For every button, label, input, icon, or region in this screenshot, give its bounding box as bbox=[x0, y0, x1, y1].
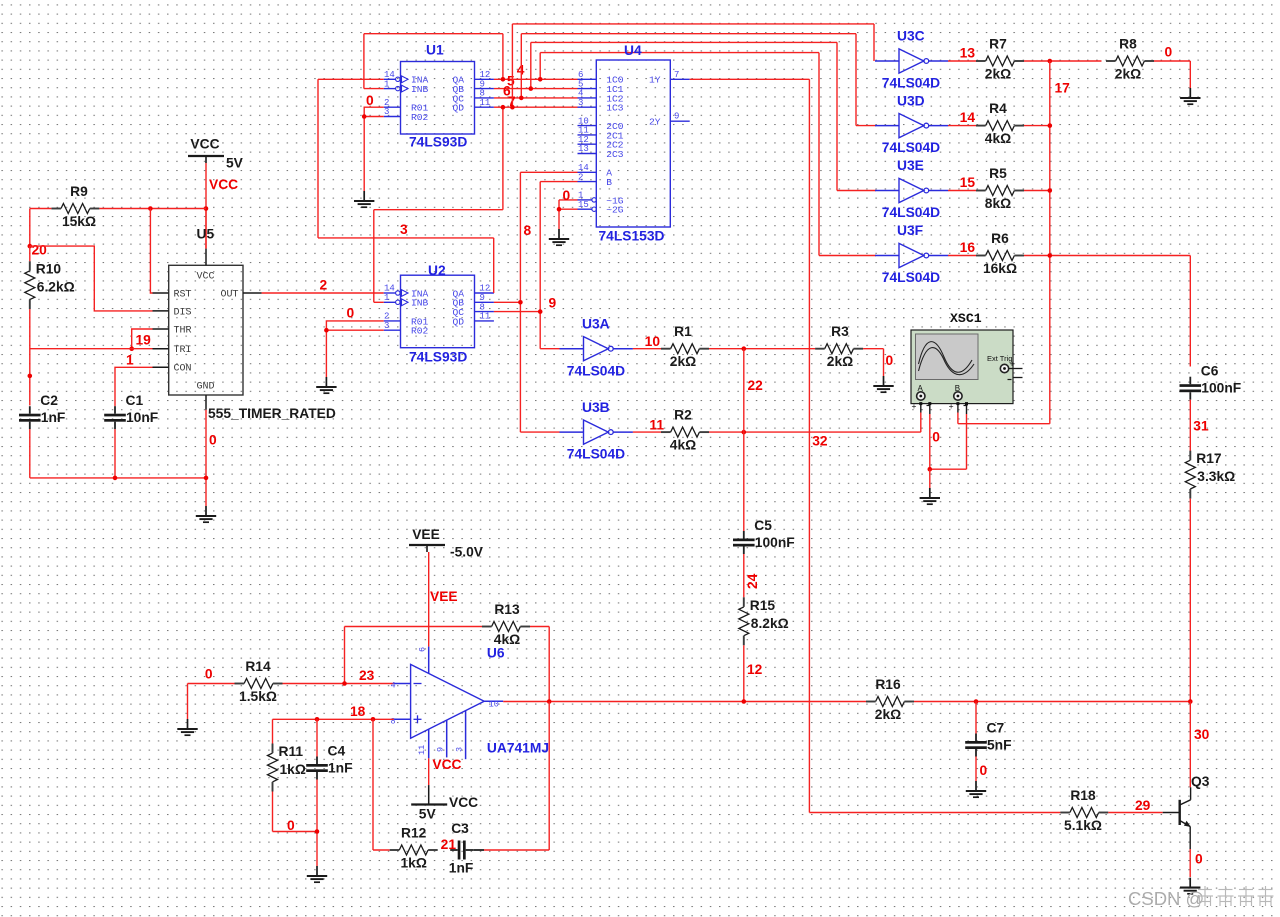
net 17 vertical bbox=[1050, 61, 1070, 424]
svg-text:9: 9 bbox=[436, 747, 446, 752]
resistor R11 1k bbox=[268, 744, 306, 792]
svg-text:VCC: VCC bbox=[196, 272, 214, 283]
power VEE symbol (-5.0V) bbox=[409, 527, 484, 560]
wire net 18 to non-inverting input bbox=[273, 704, 394, 719]
resistor R12 1k bbox=[390, 826, 438, 871]
wire Q3 collector bbox=[1189, 702, 1191, 788]
junction output/feedback bbox=[547, 699, 552, 704]
wire R14 to inverting input (net 23) bbox=[283, 683, 394, 685]
resistor R15 8.2k bbox=[739, 597, 789, 645]
wire R7 to node 17 bbox=[1024, 60, 1102, 62]
op-amp U6 UA741MJ bbox=[391, 647, 504, 760]
watermark CSDN bbox=[1128, 886, 1274, 909]
svg-text:6: 6 bbox=[418, 647, 428, 652]
junction C4 top bbox=[315, 717, 320, 722]
wire U3C out net 13 bbox=[948, 45, 976, 61]
svg-text:R10: R10 bbox=[36, 262, 62, 277]
svg-text:2kΩ: 2kΩ bbox=[1115, 67, 1141, 82]
wire QD down to U2 INB bbox=[374, 107, 503, 302]
wire C4 column bbox=[316, 719, 318, 831]
svg-text:10: 10 bbox=[489, 700, 499, 710]
wire QB to U3E (8k) bbox=[531, 42, 876, 190]
capacitor C2 1nF bbox=[19, 393, 65, 429]
wire R11 bottom to ground node bbox=[273, 792, 318, 867]
svg-text:VEE: VEE bbox=[430, 589, 458, 604]
svg-text:22: 22 bbox=[748, 378, 764, 393]
junction R6/17 bbox=[1048, 253, 1053, 258]
svg-text:INB: INB bbox=[411, 84, 429, 95]
svg-text:-5.0V: -5.0V bbox=[450, 545, 484, 560]
capacitor C6 100nF bbox=[1180, 364, 1242, 400]
net 9 label bbox=[549, 296, 557, 311]
ground after R3 bbox=[873, 376, 893, 392]
svg-text:C1: C1 bbox=[126, 393, 144, 408]
svg-text:2Y: 2Y bbox=[649, 117, 661, 128]
wire R16 to Q3 column bbox=[914, 701, 1190, 703]
svg-text:0: 0 bbox=[209, 433, 217, 448]
wire R14 left to ground bbox=[188, 667, 235, 720]
resistor R9 15k bbox=[51, 184, 99, 229]
svg-text:74LS04D: 74LS04D bbox=[567, 363, 625, 378]
junction U5 GND bus bbox=[204, 476, 209, 481]
svg-text:18: 18 bbox=[350, 704, 366, 719]
svg-text:1Y: 1Y bbox=[649, 75, 661, 86]
resistor R18 5.1k bbox=[1060, 788, 1108, 833]
svg-text:2: 2 bbox=[320, 278, 328, 293]
wire VEE to op-amp pin bbox=[428, 552, 430, 647]
junction output/R15 bbox=[742, 699, 747, 704]
wire R13 right to output node bbox=[530, 627, 549, 702]
wire op-amp output row bbox=[503, 701, 866, 703]
svg-text:74LS04D: 74LS04D bbox=[882, 76, 940, 91]
label XSC1 bbox=[950, 311, 982, 326]
wire R18 to Q3 base (net 29) bbox=[1108, 798, 1162, 813]
transistor Q3 bbox=[1163, 774, 1210, 827]
resistor R17 3.3k bbox=[1185, 451, 1235, 499]
svg-text:2kΩ: 2kΩ bbox=[875, 707, 901, 722]
resistor R14 1.5k bbox=[235, 659, 283, 704]
wire node20 to DIS bbox=[30, 246, 153, 311]
power VCC symbol (5V) top bbox=[188, 137, 244, 171]
wire C5 to R15 bbox=[743, 554, 745, 597]
svg-text:UA741MJ: UA741MJ bbox=[487, 741, 549, 756]
svg-text:CON: CON bbox=[174, 364, 192, 375]
svg-text:U1: U1 bbox=[426, 43, 444, 58]
svg-text:U3C: U3C bbox=[897, 29, 925, 44]
svg-text:0: 0 bbox=[287, 818, 295, 833]
wire QA to U1 INB feedback bbox=[364, 34, 503, 89]
inverter U3A 74LS04D bbox=[560, 316, 633, 378]
wire R15 to output row (net 12) bbox=[744, 645, 763, 701]
wire R1 to R3 (net 22) bbox=[709, 348, 815, 350]
label U5 bbox=[197, 227, 215, 242]
svg-text:0: 0 bbox=[366, 93, 374, 108]
wire C7 top bbox=[975, 702, 977, 734]
svg-text:VCC: VCC bbox=[449, 795, 478, 810]
svg-text:R9: R9 bbox=[70, 184, 88, 199]
svg-text:VCC: VCC bbox=[209, 177, 238, 192]
svg-text:16: 16 bbox=[960, 240, 976, 255]
wire to scope ground bbox=[929, 469, 931, 488]
svg-text:16kΩ: 16kΩ bbox=[983, 261, 1017, 276]
wire scope B- down bbox=[930, 405, 967, 469]
svg-text:10: 10 bbox=[645, 334, 661, 349]
svg-text:0: 0 bbox=[205, 667, 213, 682]
svg-text:3: 3 bbox=[400, 222, 408, 237]
wire scope A+ stub bbox=[920, 405, 922, 413]
wire net 8 U2 QB to U4 A and U3B bbox=[494, 172, 578, 432]
svg-text:R18: R18 bbox=[1070, 788, 1096, 803]
label UA741MJ bbox=[487, 741, 549, 756]
svg-text:5V: 5V bbox=[226, 156, 244, 171]
svg-text:11: 11 bbox=[417, 745, 427, 755]
svg-text:Q3: Q3 bbox=[1191, 774, 1210, 789]
svg-text:R2: R2 bbox=[674, 408, 692, 423]
wire RST branch down bbox=[150, 209, 152, 294]
svg-text:3: 3 bbox=[578, 98, 583, 108]
junction THR/TRI bbox=[129, 333, 151, 352]
wire U4 enable to ground bbox=[559, 200, 578, 229]
svg-text:U3D: U3D bbox=[897, 93, 925, 108]
svg-text:29: 29 bbox=[1135, 798, 1151, 813]
wire U2 reset R01/R02 to ground bbox=[326, 321, 383, 377]
wire QC row (net 6) bbox=[494, 97, 578, 99]
svg-text:23: 23 bbox=[359, 668, 375, 683]
junction R11/C4 ground bbox=[287, 818, 319, 834]
wire R3 to ground bbox=[863, 349, 893, 376]
svg-text:11: 11 bbox=[649, 418, 664, 433]
svg-text:14: 14 bbox=[960, 110, 976, 125]
svg-text:15kΩ: 15kΩ bbox=[62, 214, 96, 229]
ground U4 enable bbox=[549, 229, 569, 245]
label 74LS153D bbox=[599, 229, 665, 244]
wire R9 right to VCC node bbox=[99, 208, 206, 210]
junction net 9 bbox=[538, 309, 543, 314]
resistor R1 2k bbox=[661, 324, 709, 369]
svg-text:100nF: 100nF bbox=[755, 535, 795, 550]
svg-text:0: 0 bbox=[1165, 45, 1173, 60]
net 2 label bbox=[320, 278, 328, 293]
svg-text:1nF: 1nF bbox=[449, 860, 474, 875]
svg-text:19: 19 bbox=[136, 333, 152, 348]
net 32 label bbox=[812, 434, 828, 449]
inverter U3D 74LS04D bbox=[875, 93, 948, 155]
svg-text:R8: R8 bbox=[1119, 37, 1137, 52]
svg-text:1.5kΩ: 1.5kΩ bbox=[239, 689, 277, 704]
junction enable bbox=[557, 188, 571, 212]
svg-text:1nF: 1nF bbox=[41, 410, 66, 425]
wire R8 to ground (net 0) bbox=[1154, 45, 1190, 89]
wire op-amp pin11 to VCC bar bbox=[428, 758, 430, 785]
svg-text:XSC1: XSC1 bbox=[950, 311, 982, 326]
svg-text:C7: C7 bbox=[987, 721, 1005, 736]
svg-text:4kΩ: 4kΩ bbox=[670, 438, 696, 453]
wire R5 to node 17 bbox=[1024, 190, 1050, 192]
svg-text:R6: R6 bbox=[991, 231, 1009, 246]
svg-text:VEE: VEE bbox=[412, 527, 440, 542]
junction C7 node bbox=[974, 699, 979, 704]
ground scope bbox=[920, 488, 940, 504]
ground below 555 bbox=[196, 506, 216, 522]
wire R10 to C2 column bbox=[29, 246, 31, 405]
junction QA-U3F bbox=[538, 77, 543, 82]
junction 22/32 column bbox=[742, 430, 747, 435]
wire THR jog bbox=[132, 329, 153, 349]
wire U3E out net 15 bbox=[948, 175, 976, 191]
wire U3F out net 16 bbox=[948, 240, 976, 256]
ground U2 reset bbox=[316, 377, 336, 393]
svg-text:2kΩ: 2kΩ bbox=[985, 67, 1011, 82]
svg-text:R02: R02 bbox=[411, 112, 429, 123]
svg-text:8.2kΩ: 8.2kΩ bbox=[751, 616, 789, 631]
svg-text:555_TIMER_RATED: 555_TIMER_RATED bbox=[208, 406, 336, 421]
resistor R16 2k bbox=[866, 677, 914, 722]
svg-text:R16: R16 bbox=[875, 677, 901, 692]
wire R2 to scope A (net 32) bbox=[709, 413, 921, 433]
svg-text:THR: THR bbox=[174, 325, 192, 336]
wire ground bus below 555 bbox=[30, 410, 206, 506]
svg-text:1kΩ: 1kΩ bbox=[400, 856, 426, 871]
svg-text:U3A: U3A bbox=[582, 316, 610, 331]
junction QD-chain bbox=[501, 105, 506, 110]
svg-text:4: 4 bbox=[391, 681, 396, 691]
wire Q3 emitter to ground bbox=[1190, 827, 1203, 878]
svg-text:3: 3 bbox=[384, 107, 389, 117]
svg-text:17: 17 bbox=[1055, 81, 1071, 96]
svg-text:~2G: ~2G bbox=[606, 205, 624, 216]
svg-text:15: 15 bbox=[960, 175, 976, 190]
wire node 22 vertical to C5 bbox=[743, 349, 745, 531]
svg-text:3: 3 bbox=[384, 321, 389, 331]
svg-text:5nF: 5nF bbox=[987, 738, 1012, 753]
svg-text:74LS04D: 74LS04D bbox=[882, 270, 940, 285]
inverter U3B 74LS04D bbox=[560, 400, 633, 462]
junction R5/17 bbox=[1048, 188, 1053, 193]
svg-text:OUT: OUT bbox=[220, 289, 238, 300]
svg-text:0: 0 bbox=[563, 188, 571, 203]
svg-text:9: 9 bbox=[549, 296, 557, 311]
wire R4 to node 17 bbox=[1024, 125, 1050, 127]
net 24 label rotated bbox=[745, 573, 760, 589]
svg-text:CSDN @: CSDN @ bbox=[1128, 888, 1204, 909]
wire R9 left down to node 20 bbox=[30, 209, 52, 247]
svg-text:+: + bbox=[912, 401, 917, 411]
wire QB row (net 5) bbox=[494, 88, 578, 90]
wire net 3 U2 QA to U1 INA bbox=[318, 79, 494, 293]
resistor R6 16k bbox=[976, 231, 1024, 276]
svg-text:U4: U4 bbox=[624, 43, 642, 58]
wire U4 1Y long to R18 bbox=[690, 79, 1061, 812]
net 8 label bbox=[524, 223, 532, 238]
wire QD to U3C (2k) bbox=[512, 24, 874, 107]
junction R4/17 bbox=[1048, 123, 1053, 128]
wire QA to U3F (16k) bbox=[540, 53, 876, 256]
capacitor C7 5nF bbox=[965, 721, 1011, 757]
svg-text:U3F: U3F bbox=[897, 223, 923, 238]
svg-text:R13: R13 bbox=[494, 602, 520, 617]
svg-text:2kΩ: 2kΩ bbox=[670, 354, 696, 369]
junction node 22 bbox=[742, 346, 764, 393]
svg-text:1C3: 1C3 bbox=[606, 103, 624, 114]
capacitor C1 10nF bbox=[104, 393, 158, 429]
junction R9/RST branch bbox=[148, 206, 153, 211]
svg-text:74LS04D: 74LS04D bbox=[567, 447, 625, 462]
wire U3A out net 10 bbox=[633, 334, 661, 349]
svg-text:0: 0 bbox=[980, 763, 988, 778]
ground R14 bbox=[177, 719, 197, 735]
svg-text:TRI: TRI bbox=[174, 345, 192, 356]
svg-text:R14: R14 bbox=[245, 659, 271, 674]
svg-text:20: 20 bbox=[32, 243, 48, 258]
junction net 8 bbox=[518, 300, 523, 305]
svg-text:7: 7 bbox=[674, 70, 679, 80]
junction U2 R02 bbox=[324, 306, 354, 333]
svg-text:U3E: U3E bbox=[897, 158, 924, 173]
wire R13 left to inverting node bbox=[345, 627, 483, 684]
resistor R8 2k bbox=[1106, 37, 1154, 82]
svg-text:3.3kΩ: 3.3kΩ bbox=[1197, 469, 1235, 484]
op U4 74LS153D bbox=[578, 60, 690, 227]
junction R7/17 bbox=[1048, 59, 1053, 64]
svg-text:1kΩ: 1kΩ bbox=[280, 762, 306, 777]
svg-text:8kΩ: 8kΩ bbox=[985, 196, 1011, 211]
ground Q3 emitter bbox=[1180, 878, 1200, 894]
net 6 label bbox=[503, 83, 511, 98]
svg-text:32: 32 bbox=[812, 434, 828, 449]
wire Q3 collector stub bbox=[1190, 787, 1192, 800]
net 1 label bbox=[126, 353, 134, 368]
svg-text:R15: R15 bbox=[750, 598, 776, 613]
net 4 label bbox=[517, 62, 525, 77]
svg-text:QD: QD bbox=[452, 103, 464, 114]
resistor R3 2k bbox=[815, 324, 863, 369]
net VCC label (red) at op-amp bbox=[432, 757, 461, 772]
svg-text:R11: R11 bbox=[279, 744, 304, 759]
net 5 label bbox=[507, 73, 515, 88]
svg-text:10nF: 10nF bbox=[126, 410, 158, 425]
svg-text:6.2kΩ: 6.2kΩ bbox=[37, 280, 75, 295]
svg-text:24: 24 bbox=[745, 573, 760, 589]
wire QD row (net 7) bbox=[494, 106, 578, 108]
wire U1 reset R01/R02 to ground bbox=[364, 107, 384, 191]
inverter U3E 74LS04D bbox=[875, 158, 948, 220]
label 555_TIMER_RATED bbox=[208, 406, 336, 421]
svg-text:U2: U2 bbox=[428, 263, 446, 278]
op U2 74LS93D bbox=[384, 263, 494, 365]
svg-text:0: 0 bbox=[886, 353, 894, 368]
svg-text:QD: QD bbox=[452, 316, 464, 327]
svg-text:GND: GND bbox=[196, 382, 214, 393]
inverter U3F 74LS04D bbox=[875, 223, 948, 285]
svg-text:VCC: VCC bbox=[190, 137, 219, 152]
net 7 label bbox=[508, 94, 516, 109]
svg-text:INB: INB bbox=[411, 298, 429, 309]
svg-text:4kΩ: 4kΩ bbox=[985, 131, 1011, 146]
wire net 2 OUT to U2 INA bbox=[262, 292, 384, 294]
junction C1 ground bus bbox=[113, 476, 118, 481]
junction QD-U3C bbox=[510, 105, 515, 110]
junction net 23 bbox=[342, 668, 374, 686]
svg-text:U6: U6 bbox=[487, 646, 505, 661]
net 30 label bbox=[1194, 727, 1210, 742]
svg-text:VCC: VCC bbox=[432, 757, 461, 772]
junction output/Q3 column bbox=[1188, 699, 1193, 704]
svg-text:5.1kΩ: 5.1kΩ bbox=[1064, 818, 1102, 833]
svg-text:B: B bbox=[606, 177, 612, 188]
junction QB-U3E bbox=[529, 86, 534, 91]
resistor R10 6.2k bbox=[25, 261, 75, 309]
svg-text:8: 8 bbox=[524, 223, 532, 238]
wire net 18 down to R12 bbox=[373, 719, 390, 850]
svg-text:+: + bbox=[949, 401, 954, 411]
svg-text:11: 11 bbox=[480, 98, 491, 108]
svg-text:12: 12 bbox=[747, 662, 763, 677]
svg-text:9: 9 bbox=[674, 112, 679, 122]
wire scope A- to ground node bbox=[929, 405, 931, 469]
wire C7 to ground bbox=[976, 757, 988, 782]
svg-text:31: 31 bbox=[1193, 419, 1209, 434]
wire C3 to output node bbox=[473, 702, 549, 851]
wire QA row (net 4) bbox=[494, 78, 578, 80]
svg-text:U5: U5 bbox=[197, 227, 215, 242]
wire scope B+ to net 17 bbox=[958, 405, 1050, 424]
svg-text:74LS153D: 74LS153D bbox=[599, 229, 665, 244]
op U5 555 timer body bbox=[153, 249, 262, 410]
junction net 18 down bbox=[371, 717, 376, 722]
node 20 junction bbox=[28, 243, 48, 258]
svg-text:30: 30 bbox=[1194, 727, 1210, 742]
net VEE label (red) bbox=[430, 589, 458, 604]
resistor R2 4k bbox=[661, 408, 709, 453]
resistor R4 4k bbox=[976, 101, 1024, 146]
svg-text:U3B: U3B bbox=[582, 400, 610, 415]
svg-text:0: 0 bbox=[1195, 852, 1203, 867]
svg-text:R7: R7 bbox=[989, 37, 1007, 52]
junction QC-U3D bbox=[519, 96, 524, 101]
svg-text:R1: R1 bbox=[674, 324, 692, 339]
junction QA feedback bbox=[501, 77, 506, 82]
wire net 9 U2 QC to U4 B and U3A bbox=[494, 182, 578, 349]
junction U1 R02 bbox=[362, 93, 374, 119]
svg-text:13: 13 bbox=[960, 45, 976, 60]
svg-text:C2: C2 bbox=[40, 393, 58, 408]
op U1 74LS93D bbox=[384, 43, 494, 150]
svg-text:5V: 5V bbox=[419, 806, 437, 821]
resistor R13 4k feedback bbox=[482, 602, 530, 647]
wire QC to U3D (4k) bbox=[521, 34, 876, 126]
net VCC label (red) bbox=[209, 177, 238, 192]
wire R12 to C3 (net 21) bbox=[441, 837, 457, 852]
ground after R8 bbox=[1180, 88, 1200, 104]
svg-text:2C3: 2C3 bbox=[606, 149, 624, 160]
svg-text:R4: R4 bbox=[989, 101, 1007, 116]
svg-text:R5: R5 bbox=[989, 166, 1007, 181]
ground R11/C4 bbox=[307, 866, 327, 882]
svg-text:3: 3 bbox=[455, 747, 465, 752]
svg-text:1: 1 bbox=[384, 79, 389, 89]
label U4 bbox=[624, 43, 642, 58]
svg-text:2kΩ: 2kΩ bbox=[827, 354, 853, 369]
svg-text:11: 11 bbox=[480, 312, 491, 322]
svg-text:100nF: 100nF bbox=[1201, 381, 1241, 396]
svg-text:C3: C3 bbox=[451, 821, 469, 836]
svg-text:74LS93D: 74LS93D bbox=[409, 350, 467, 365]
svg-text:+: + bbox=[1010, 359, 1015, 369]
svg-text:13: 13 bbox=[578, 144, 589, 154]
svg-text:74LS04D: 74LS04D bbox=[882, 205, 940, 220]
svg-text:0: 0 bbox=[932, 430, 940, 445]
wire TRI row bbox=[30, 348, 153, 350]
